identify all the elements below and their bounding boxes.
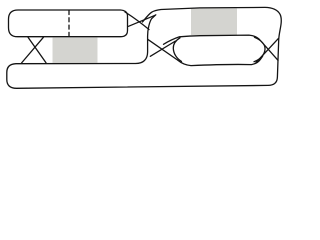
left X: NE diagonal: [22, 37, 44, 63]
middle clasp under-strand: [148, 39, 263, 65]
middle clasp NE diagonal: [150, 41, 175, 56]
clasp X top: SE diagonal: [125, 12, 149, 30]
wire outer boundary (big band): [7, 7, 281, 88]
clasp X top: NE diagonal: [129, 15, 156, 26]
plumbing square left (gray): [53, 38, 98, 63]
band B right cap: [254, 37, 265, 61]
band B top edge with right SE diagonal: [164, 35, 279, 60]
left X: SE diagonal: [28, 37, 46, 63]
right X NE diagonal: [256, 39, 278, 63]
band A outline (top-left stadium): [9, 10, 128, 37]
plumbing square top (gray): [191, 8, 237, 35]
dashed cut line: [68, 11, 70, 37]
band B left cap: [173, 38, 181, 62]
